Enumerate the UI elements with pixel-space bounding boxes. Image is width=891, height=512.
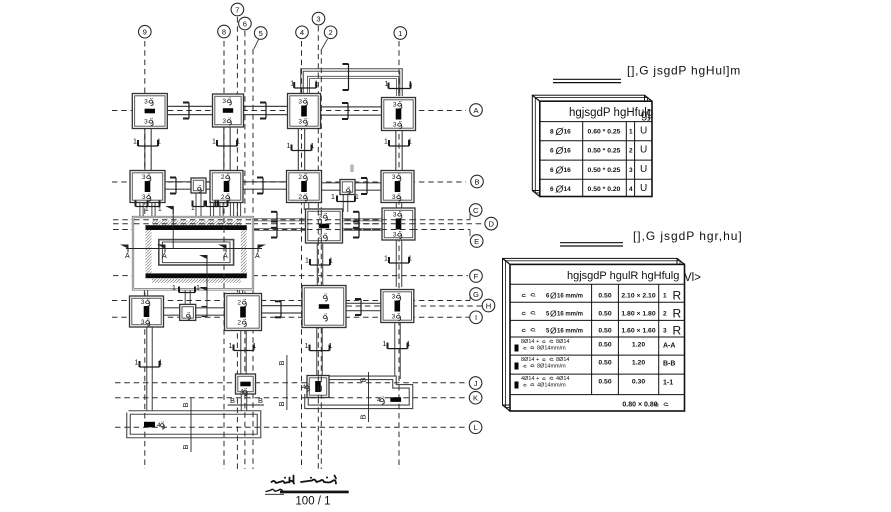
svg-text:8Ø14mm/m: 8Ø14mm/m: [537, 364, 566, 370]
svg-text:0.50: 0.50: [598, 293, 611, 300]
svg-text:U: U: [640, 145, 647, 156]
table 1 columns schedule: [532, 95, 652, 196]
svg-text:8Ø14 +: 8Ø14 +: [521, 339, 539, 345]
raft hatch top: [152, 221, 241, 226]
svg-text:8Ø14: 8Ø14: [556, 339, 569, 345]
svg-text:3: 3: [141, 299, 145, 306]
beam C3-G4: [317, 243, 324, 286]
beam G6-G4: [261, 305, 304, 314]
column K1: [390, 397, 401, 402]
svg-text:2.10 × 2.10: 2.10 × 2.10: [621, 293, 655, 300]
grid line 9: [144, 41, 146, 469]
grid line 4: [301, 41, 303, 469]
grid line K: [115, 397, 468, 399]
raft hatch left: [146, 229, 152, 275]
footing A1: [382, 98, 416, 131]
grid line 7: [236, 17, 238, 469]
grid line 5: [252, 49, 254, 469]
svg-text:[],G jsgdP hgHul]m: [],G jsgdP hgHul]m: [627, 64, 741, 78]
beam G1-Kblock: [394, 323, 401, 380]
stub above Bs2: [351, 165, 354, 173]
svg-text:8: 8: [550, 129, 554, 136]
svg-text:1: 1: [355, 194, 359, 201]
section cut v2: [206, 258, 208, 317]
raft band top: [146, 225, 247, 230]
svg-text:2: 2: [221, 174, 225, 181]
svg-text:F: F: [474, 272, 479, 281]
grid 2 over J3: [320, 377, 322, 398]
grid line 1: [398, 41, 400, 469]
beam A9-A8: [167, 106, 213, 116]
raft outer: [133, 217, 253, 289]
bottom title arabic: [272, 476, 337, 484]
svg-text:K: K: [473, 394, 478, 403]
svg-text:6: 6: [550, 148, 554, 155]
beam G4-J3: [316, 328, 323, 377]
svg-text:R: R: [673, 324, 682, 338]
svg-text:2: 2: [298, 174, 302, 181]
svg-text:16: 16: [564, 129, 572, 136]
grid 8 over raft: [223, 218, 225, 288]
svg-text:L: L: [473, 423, 477, 432]
stub B8-raft c: [230, 202, 234, 218]
svg-text:3: 3: [392, 314, 396, 321]
svg-text:3: 3: [142, 174, 146, 181]
svg-text:3: 3: [663, 328, 667, 335]
beam J6-strip: [241, 394, 248, 414]
raft hatch bot: [152, 278, 241, 283]
stub B8-raft a: [210, 202, 214, 218]
stub B8-raft d: [237, 202, 241, 218]
svg-text:1: 1: [314, 81, 318, 88]
svg-text:0.50: 0.50: [598, 378, 611, 385]
stub B8-raft b: [219, 202, 223, 218]
svg-text:B: B: [258, 396, 263, 405]
footing C1: [382, 208, 415, 240]
svg-text:1: 1: [157, 139, 161, 146]
svg-text:1: 1: [135, 360, 139, 367]
svg-text:8Ø14: 8Ø14: [556, 357, 569, 363]
bottom title line: [280, 491, 349, 494]
grid bubble C: [469, 204, 482, 217]
raft band bottom: [146, 273, 247, 278]
svg-text:1: 1: [329, 258, 333, 265]
svg-text:1.20: 1.20: [632, 341, 645, 348]
svg-text:B: B: [359, 377, 368, 382]
svg-text:1: 1: [384, 256, 388, 263]
grid bubble E: [470, 235, 483, 248]
grid line I: [112, 316, 469, 318]
svg-text:1: 1: [158, 206, 162, 213]
svg-text:1: 1: [408, 256, 412, 263]
svg-text:8Ø14mm/m: 8Ø14mm/m: [537, 346, 566, 352]
svg-text:1.60 × 1.60: 1.60 × 1.60: [621, 328, 655, 335]
section B-B left: [190, 398, 192, 452]
grid C over raft: [134, 219, 252, 221]
svg-text:16 mm/m: 16 mm/m: [557, 294, 583, 300]
grid bubble F: [470, 270, 483, 283]
svg-text:E: E: [474, 237, 479, 246]
svg-text:3: 3: [298, 99, 302, 106]
footing C3: [306, 209, 343, 243]
beam B4-Bs2: [322, 182, 341, 191]
svg-text:1: 1: [305, 343, 309, 350]
svg-text:7: 7: [235, 5, 239, 14]
grid bubble D: [485, 217, 498, 230]
svg-text:H: H: [486, 301, 491, 310]
svg-text:3: 3: [629, 167, 633, 174]
grid bubble B: [471, 175, 484, 188]
raft inner rect 1: [159, 240, 234, 265]
grid line 3: [317, 26, 319, 469]
svg-text:6: 6: [550, 186, 554, 193]
grid D over raft: [134, 223, 252, 225]
grid line C: [113, 219, 470, 221]
svg-text:5: 5: [259, 29, 263, 38]
section B-B horizontal: [228, 404, 264, 406]
svg-text:1: 1: [408, 139, 412, 146]
stub B9-raft a: [139, 201, 143, 218]
grid bubble 3: [312, 12, 325, 25]
svg-text:1.80 × 1.80: 1.80 × 1.80: [621, 311, 655, 318]
svg-text:1: 1: [191, 205, 195, 212]
svg-text:0.60 * 0.25: 0.60 * 0.25: [588, 129, 621, 136]
svg-text:16: 16: [564, 148, 572, 155]
svg-text:0.50 * 0.25: 0.50 * 0.25: [588, 148, 621, 155]
footing A4: [288, 94, 321, 129]
svg-text:1: 1: [409, 81, 413, 88]
beam Bs2-B1: [355, 182, 383, 191]
section cut v1: [172, 207, 174, 249]
strip footing bottom-left: [129, 413, 260, 437]
stub B1-C1: [396, 202, 403, 210]
svg-text:3: 3: [141, 319, 145, 326]
footing J6: [236, 374, 256, 394]
svg-text:B: B: [230, 396, 235, 405]
small footing Bs1: [191, 178, 206, 193]
svg-text:16: 16: [564, 167, 572, 174]
svg-text:3: 3: [392, 194, 396, 201]
beam A4-B4: [298, 128, 306, 172]
beam C3-C1 top: [343, 218, 384, 221]
svg-text:4: 4: [300, 28, 304, 37]
svg-text:B: B: [359, 414, 368, 419]
svg-text:2: 2: [663, 311, 667, 318]
svg-text:3: 3: [393, 232, 397, 239]
grid line G: [112, 300, 470, 302]
beam raft-C3 top: [253, 218, 307, 221]
svg-text:G: G: [473, 290, 479, 299]
svg-text:D: D: [488, 219, 494, 228]
grid line B: [112, 181, 466, 183]
beam C1-G1: [396, 240, 403, 287]
svg-text:3: 3: [222, 118, 226, 125]
svg-text:2: 2: [629, 148, 633, 155]
svg-text:1: 1: [305, 258, 309, 265]
svg-text:1: 1: [196, 285, 200, 292]
svg-text:I: I: [475, 313, 477, 322]
grid E over footings: [307, 229, 415, 231]
grid bubble H: [482, 299, 495, 312]
svg-text:2: 2: [221, 194, 225, 201]
svg-text:R: R: [673, 289, 682, 303]
svg-text:2: 2: [237, 300, 241, 307]
beam A8-B8: [223, 127, 231, 172]
svg-text:g]: g]: [641, 109, 651, 121]
small footing Gs: [180, 304, 196, 320]
stub raft-G6: [239, 289, 243, 294]
grid bubble J: [469, 377, 482, 390]
svg-text:16 mm/m: 16 mm/m: [557, 329, 583, 335]
svg-text:1: 1: [145, 206, 149, 213]
svg-text:3: 3: [144, 119, 148, 126]
beam A4-A1: [320, 106, 383, 116]
raft inner rect 2: [162, 242, 230, 263]
grid 3 over C3: [317, 210, 319, 243]
stub raft-Gs: [185, 289, 191, 305]
grid C over footings: [307, 219, 415, 221]
svg-text:3: 3: [392, 294, 396, 301]
footing G1: [381, 290, 414, 323]
grid bubble 4: [296, 26, 309, 39]
grid line F: [113, 275, 468, 277]
svg-text:3: 3: [144, 99, 148, 106]
svg-text:B: B: [181, 402, 190, 407]
grid bubble I: [470, 311, 483, 324]
svg-text:1: 1: [287, 143, 291, 150]
svg-text:1: 1: [407, 341, 411, 348]
footing G4: [302, 286, 346, 328]
grid bubble 2: [324, 26, 337, 39]
svg-text:R: R: [673, 307, 682, 321]
svg-text:0.50: 0.50: [598, 328, 611, 335]
svg-text:B: B: [181, 444, 190, 449]
svg-text:U: U: [640, 164, 647, 175]
bottom small word: [266, 489, 283, 491]
beam A9-B9: [144, 127, 152, 172]
svg-text:4Ø14 +: 4Ø14 +: [521, 376, 539, 382]
svg-text:3: 3: [298, 119, 302, 126]
svg-text:B: B: [474, 177, 479, 186]
grid bubble 1: [394, 27, 407, 40]
svg-text:A: A: [162, 253, 167, 260]
footing A9: [132, 94, 167, 129]
svg-text:J: J: [474, 379, 478, 388]
grid bubble K: [469, 391, 482, 404]
svg-text:3: 3: [393, 212, 397, 219]
grid bubble A: [470, 104, 483, 117]
svg-text:3: 3: [393, 122, 397, 129]
block bottom-right: [307, 378, 412, 407]
footing B4: [287, 171, 322, 203]
grid line D: [113, 223, 485, 225]
raft hatch right: [241, 229, 247, 275]
beam G4-G1: [346, 303, 383, 312]
svg-text:1-1: 1-1: [663, 379, 673, 386]
beam Bs1-B8: [206, 181, 211, 190]
svg-text:4Ø14: 4Ø14: [556, 376, 569, 382]
footing J3: [307, 376, 329, 398]
grid bubble 5: [254, 27, 267, 40]
svg-text:B: B: [277, 360, 286, 365]
svg-text:1: 1: [212, 139, 216, 146]
svg-text:1: 1: [329, 343, 333, 350]
svg-text:0.50 * 0.20: 0.50 * 0.20: [588, 186, 621, 193]
grid D over footings: [307, 223, 415, 225]
svg-text:3: 3: [393, 102, 397, 109]
svg-text:8: 8: [222, 27, 226, 36]
svg-text:Ø: Ø: [550, 326, 557, 336]
svg-text:8Ø14 +: 8Ø14 +: [521, 357, 539, 363]
svg-text:1: 1: [236, 139, 240, 146]
svg-text:1: 1: [629, 129, 633, 136]
section B-B right: [368, 372, 370, 422]
small footing Bs2: [340, 180, 355, 195]
grid line A: [112, 110, 466, 112]
grid 3 over J3: [317, 377, 319, 398]
stub Bs1-raft: [196, 194, 202, 218]
footing B8: [210, 171, 243, 203]
svg-text:6: 6: [243, 19, 247, 28]
svg-text:1: 1: [253, 343, 257, 350]
svg-text:1: 1: [229, 343, 233, 350]
svg-text:0.50: 0.50: [598, 359, 611, 366]
beam G9-strip: [146, 328, 153, 414]
beam B9-Bs1: [162, 181, 192, 190]
svg-text:1: 1: [290, 81, 294, 88]
section ticks: [183, 103, 189, 119]
beam A1-B1: [395, 130, 403, 172]
svg-text:2: 2: [328, 28, 332, 37]
svg-text:A: A: [125, 253, 130, 260]
svg-text:Ø: Ø: [550, 291, 557, 301]
beam C3-C1 bot: [343, 228, 384, 231]
svg-text:0.80 × 0.80: 0.80 × 0.80: [622, 402, 657, 409]
beam top outer: [302, 70, 401, 96]
stub raft-G9: [144, 289, 148, 297]
svg-text:2: 2: [237, 320, 241, 327]
svg-text:Ø: Ø: [550, 309, 557, 319]
grid line E: [254, 229, 470, 231]
svg-text:4Ø14mm/m: 4Ø14mm/m: [537, 383, 566, 389]
grid bubble 6: [239, 17, 252, 30]
grid bubble 8: [218, 25, 231, 38]
svg-text:B-B: B-B: [663, 360, 675, 367]
beam top inner: [309, 77, 398, 96]
footing B1: [381, 171, 414, 203]
svg-text:1: 1: [383, 341, 387, 348]
grid bubble G: [470, 288, 483, 301]
beam G6-J6: [240, 331, 247, 375]
svg-text:A: A: [255, 253, 260, 260]
grid bubble 9: [139, 25, 152, 38]
svg-text:0.30: 0.30: [632, 378, 645, 385]
grid line J: [115, 382, 468, 384]
grid line 8: [223, 41, 225, 469]
footing G9: [130, 296, 164, 327]
svg-text:C: C: [473, 206, 479, 215]
svg-text:1: 1: [311, 143, 315, 150]
grid bubble 7: [231, 3, 244, 16]
grid line E left: [113, 229, 134, 231]
svg-text:1: 1: [398, 29, 402, 38]
svg-text:Vl>: Vl>: [684, 272, 701, 284]
beam A8-A4: [244, 106, 289, 116]
svg-text:6: 6: [550, 167, 554, 174]
svg-text:1: 1: [385, 81, 389, 88]
grid line 6: [244, 31, 246, 469]
stub B9-raft b: [151, 201, 155, 218]
svg-text:3: 3: [316, 14, 320, 23]
svg-text:3: 3: [392, 174, 396, 181]
svg-text:1: 1: [331, 194, 335, 201]
grid bubble L: [469, 421, 482, 434]
svg-text:0.50: 0.50: [598, 311, 611, 318]
stub B4-C3: [304, 202, 310, 211]
svg-text:3: 3: [142, 194, 146, 201]
svg-text:3: 3: [222, 98, 226, 105]
section B-B mid: [286, 355, 288, 410]
beam B8-B4: [241, 181, 288, 190]
grid line 2: [320, 49, 322, 469]
svg-text:U: U: [640, 183, 647, 194]
section A-A: [126, 248, 262, 250]
svg-text:1: 1: [172, 285, 176, 292]
svg-text:hgjsgdP hgulR hgHfulg: hgjsgdP hgulR hgHfulg: [567, 270, 679, 282]
svg-text:1.20: 1.20: [632, 359, 645, 366]
svg-text:100 / 1: 100 / 1: [295, 496, 330, 507]
footing A8: [213, 94, 244, 127]
beam G9-Gs: [163, 307, 181, 316]
footing G6: [225, 294, 262, 331]
column L9: [144, 422, 155, 428]
svg-text:A-A: A-A: [663, 342, 675, 349]
beam raft-C3 bot: [253, 228, 307, 231]
grid line H: [337, 305, 482, 307]
svg-text:16 mm/m: 16 mm/m: [557, 312, 583, 318]
svg-text:4: 4: [629, 186, 633, 193]
stub Bs2-C3: [343, 195, 349, 213]
footing B9: [130, 171, 165, 203]
svg-text:0.50: 0.50: [598, 341, 611, 348]
svg-text:U: U: [640, 126, 647, 137]
svg-text:0.50 * 0.25: 0.50 * 0.25: [588, 167, 621, 174]
svg-text:1: 1: [384, 139, 388, 146]
svg-text:B: B: [277, 401, 286, 406]
grid 2 over C3: [320, 210, 322, 243]
grid line L: [115, 426, 468, 428]
svg-text:[],G jsgdP hgr,hu]: [],G jsgdP hgr,hu]: [633, 229, 743, 243]
svg-text:2: 2: [298, 194, 302, 201]
svg-text:A: A: [223, 253, 228, 260]
beam Gs-G6: [195, 307, 226, 316]
svg-text:14: 14: [564, 186, 572, 193]
svg-text:1: 1: [663, 293, 667, 300]
svg-text:9: 9: [143, 28, 147, 37]
svg-text:1: 1: [133, 139, 137, 146]
svg-text:1: 1: [159, 360, 163, 367]
table 2 footings schedule: [503, 258, 685, 411]
